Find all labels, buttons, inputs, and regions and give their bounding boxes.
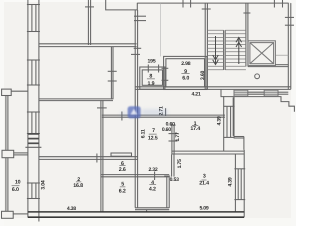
svg-text:17.4: 17.4 [190,126,200,132]
svg-text:6.0: 6.0 [12,187,19,193]
svg-text:6.11: 6.11 [141,129,147,138]
band right of elevator [276,54,288,56]
svg-text:16.8: 16.8 [73,183,83,189]
tick on central wall [134,47,142,49]
room 4 right wall [166,177,168,208]
horizontal wall neighbor [39,43,137,45]
stub wall left of room3 [171,154,173,176]
svg-text:4.39: 4.39 [217,116,223,125]
window section 2 [31,60,33,85]
svg-text:0.53: 0.53 [170,177,179,183]
bottom thick wall [28,212,244,217]
staircase divider [223,30,225,70]
room2/6 top wall [39,156,138,158]
svg-text:4.2: 4.2 [149,187,156,193]
stair steps [207,30,246,70]
room 9 box [164,56,207,89]
svg-text:6: 6 [121,161,124,167]
wall room2 right [100,100,102,212]
garbage chute circle [255,74,260,79]
svg-text:1.75: 1.75 [177,159,183,168]
closet sill [111,153,132,156]
staircase left wall [204,3,206,89]
svg-text:195: 195 [148,59,156,65]
room 8 WC box [140,67,165,89]
room1 east window wall [223,96,225,151]
west balcony rail [6,96,8,212]
building top wall [137,2,288,4]
svg-text:4: 4 [151,180,154,186]
svg-text:4.38: 4.38 [67,206,76,212]
window section 3 [31,112,33,134]
porch outline [232,97,234,135]
svg-text:7: 7 [152,128,155,134]
svg-text:2.98: 2.98 [181,61,190,67]
svg-text:6.2: 6.2 [119,189,126,195]
svg-text:2.6: 2.6 [119,167,126,173]
svg-text:3.60: 3.60 [200,70,206,79]
hall bottom wall [102,114,225,116]
stair up arrow [236,38,242,65]
top wall ticks [182,0,184,8]
svg-text:0.60: 0.60 [162,127,171,133]
balcony slab bottom [2,211,14,218]
room 6 bottom wall [101,174,169,176]
staircase right wall [245,3,247,66]
north balcony outline [106,0,138,10]
room1 bottom / room3 top wall [172,150,245,152]
svg-text:1.77: 1.77 [175,132,181,141]
svg-text:5.09: 5.09 [199,206,208,212]
window section 1 [31,5,33,32]
wall top-left vertical [87,0,89,45]
sill lines between pieces [248,91,264,93]
svg-text:4.21: 4.21 [191,91,200,97]
wall room7/room1 with door [171,125,173,154]
balcony slab middle [2,150,14,157]
svg-text:6.0: 6.0 [182,75,189,81]
svg-text:1.9: 1.9 [148,81,155,87]
long central vertical wall [134,10,136,208]
window piece A on lobby wall [234,90,248,96]
room3 east wall with window [234,154,236,212]
svg-text:2.32: 2.32 [148,167,157,173]
svg-text:3.04: 3.04 [40,180,46,189]
svg-text:10: 10 [15,180,21,186]
right exterior wall [287,3,289,89]
balcony slab top [2,89,12,95]
svg-text:3: 3 [203,174,206,180]
svg-text:9: 9 [184,69,187,75]
elevator shaft [248,41,275,66]
svg-text:21.4: 21.4 [199,181,209,187]
window piece B on lobby wall [264,90,278,96]
step east of room1 [234,136,244,138]
room 4 bottom wall [135,207,169,209]
long wall under rooms 8-9 and lobby [135,86,291,88]
svg-text:8: 8 [149,74,152,80]
jog wall [39,98,113,100]
west exterior window wall [25,0,41,222]
wall neighbor vertical [110,47,112,100]
stair down arrow [213,36,219,65]
svg-text:12.5: 12.5 [148,136,158,142]
balcony connectors [11,90,28,92]
balcony door rungs [28,134,39,143]
svg-text:4.39: 4.39 [228,177,234,186]
window section 4 [31,183,33,199]
watermark [120,106,168,118]
